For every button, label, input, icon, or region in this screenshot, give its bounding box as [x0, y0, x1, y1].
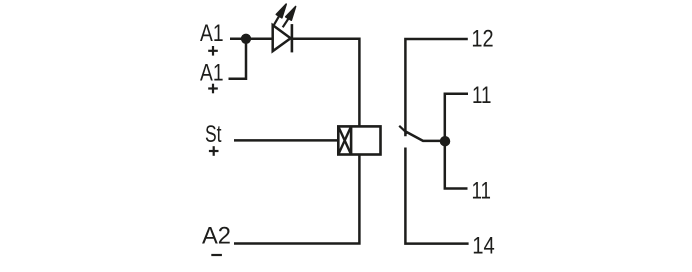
polarity + under A1 second [208, 84, 218, 94]
svg-text:12: 12 [471, 26, 493, 53]
relay coil K1 box [338, 126, 380, 154]
wire St to coil [234, 139, 338, 142]
svg-text:St: St [205, 121, 222, 148]
wire A1 to junction and LED anode [230, 38, 273, 41]
LED light arrow 1 [274, 4, 286, 25]
wire LED cathode to coil top [292, 39, 360, 127]
svg-text:A2: A2 [202, 223, 231, 250]
svg-text:14: 14 [472, 232, 495, 259]
wire coil bottom to A2 [234, 155, 359, 244]
svg-text:A1: A1 [200, 59, 224, 86]
coil X mark [338, 126, 351, 154]
LED light arrow 2 [283, 7, 296, 28]
polarity + under St [209, 146, 219, 156]
wire second A1 up to junction [229, 39, 247, 79]
junction node A1 [241, 34, 251, 44]
svg-text:11: 11 [472, 177, 492, 204]
polarity - under A2 [211, 254, 222, 256]
LED D1 cathode bar [291, 24, 294, 52]
wire terminal 11 common rail [445, 94, 468, 189]
NC contact tick [399, 126, 407, 134]
LED D1 triangle [273, 25, 291, 51]
wire terminal 12 down to NC contact [405, 39, 467, 136]
svg-text:11: 11 [472, 82, 492, 109]
wire NO contact down to terminal 14 [405, 148, 468, 244]
coil divider [350, 126, 353, 154]
junction node 11 [440, 136, 451, 147]
svg-text:A1: A1 [200, 20, 224, 47]
contact arm [405, 131, 445, 141]
polarity + under A1 top [208, 46, 218, 56]
